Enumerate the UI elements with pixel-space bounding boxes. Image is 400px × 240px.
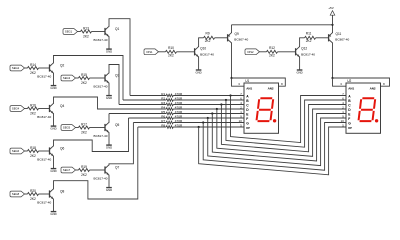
- svg-text:R14: R14: [30, 63, 36, 67]
- svg-text:SEG2: SEG2: [12, 66, 20, 70]
- svg-text:R7: R7: [161, 119, 165, 123]
- svg-text:2K2: 2K2: [81, 173, 87, 177]
- svg-text:SEG1: SEG1: [65, 30, 73, 34]
- svg-text:R18: R18: [30, 146, 36, 150]
- svg-text:Q8: Q8: [60, 189, 64, 193]
- svg-text:R17: R17: [81, 123, 87, 127]
- svg-text:Q1: Q1: [115, 27, 119, 31]
- svg-text:F: F: [246, 117, 248, 121]
- svg-text:Q7: Q7: [115, 165, 119, 169]
- svg-text:SEG5: SEG5: [63, 126, 71, 130]
- svg-text:+5V: +5V: [328, 6, 333, 10]
- svg-text:2K2: 2K2: [83, 34, 89, 38]
- svg-text:R15: R15: [81, 73, 87, 77]
- svg-text:SEG8: SEG8: [12, 192, 20, 196]
- svg-text:BC817-40: BC817-40: [37, 158, 51, 162]
- svg-text:GND: GND: [296, 70, 302, 74]
- svg-text:BC817-40: BC817-40: [37, 201, 51, 205]
- svg-text:2K2: 2K2: [168, 53, 174, 57]
- svg-text:Q4: Q4: [60, 104, 64, 108]
- svg-text:R11: R11: [306, 32, 312, 36]
- svg-text:2K2: 2K2: [30, 71, 36, 75]
- svg-text:GND: GND: [50, 212, 56, 216]
- svg-text:10: 10: [239, 119, 243, 123]
- svg-text:SEG3: SEG3: [63, 76, 71, 80]
- svg-text:R8: R8: [161, 124, 165, 128]
- svg-text:DP: DP: [348, 126, 352, 130]
- svg-text:GND: GND: [106, 146, 112, 150]
- svg-text:470R: 470R: [175, 110, 183, 114]
- svg-text:2K2: 2K2: [30, 111, 36, 115]
- svg-text:2K2: 2K2: [306, 39, 312, 43]
- svg-text:BC817-40: BC817-40: [94, 177, 108, 181]
- svg-text:470R: 470R: [175, 106, 183, 110]
- svg-text:R3: R3: [161, 101, 165, 105]
- svg-text:BC817-40: BC817-40: [301, 52, 315, 56]
- svg-text:R2: R2: [161, 97, 165, 101]
- svg-text:R12: R12: [269, 46, 275, 50]
- svg-text:2K2: 2K2: [30, 154, 36, 158]
- svg-text:R9: R9: [206, 32, 210, 36]
- svg-text:470R: 470R: [175, 92, 183, 96]
- svg-text:G: G: [348, 122, 351, 126]
- svg-text:470R: 470R: [175, 124, 183, 128]
- svg-text:R4: R4: [161, 106, 165, 110]
- svg-text:Q5: Q5: [115, 123, 119, 127]
- svg-text:SEG4: SEG4: [12, 107, 20, 111]
- svg-text:GND: GND: [106, 50, 112, 54]
- svg-text:470R: 470R: [175, 101, 183, 105]
- svg-text:Q10: Q10: [200, 47, 206, 51]
- svg-text:Q9: Q9: [235, 32, 239, 36]
- svg-text:U1: U1: [245, 79, 249, 83]
- svg-text:BC817-40: BC817-40: [37, 115, 51, 119]
- svg-text:AN2: AN2: [370, 86, 376, 90]
- svg-text:R19: R19: [81, 165, 87, 169]
- svg-text:GND: GND: [50, 169, 56, 173]
- svg-text:10: 10: [341, 119, 345, 123]
- svg-text:GND: GND: [50, 127, 56, 131]
- svg-text:R1: R1: [161, 92, 165, 96]
- svg-text:R5: R5: [161, 110, 165, 114]
- svg-text:R16: R16: [30, 104, 36, 108]
- svg-text:2K2: 2K2: [205, 39, 211, 43]
- svg-text:2K2: 2K2: [81, 130, 87, 134]
- svg-text:GND: GND: [195, 70, 201, 74]
- svg-text:R20: R20: [30, 189, 36, 193]
- svg-text:AN2: AN2: [268, 86, 274, 90]
- svg-text:BC817-40: BC817-40: [94, 134, 108, 138]
- svg-text:R10: R10: [168, 46, 174, 50]
- svg-text:F: F: [348, 117, 350, 121]
- svg-text:Q11: Q11: [336, 32, 342, 36]
- svg-text:2K2: 2K2: [269, 53, 275, 57]
- svg-text:DIS2: DIS2: [248, 50, 254, 54]
- svg-text:SEG7: SEG7: [63, 168, 71, 172]
- svg-text:U2: U2: [347, 79, 351, 83]
- svg-text:G: G: [246, 122, 249, 126]
- svg-text:2K2: 2K2: [81, 81, 87, 85]
- svg-text:Q6: Q6: [60, 146, 64, 150]
- svg-text:DIS1: DIS1: [147, 50, 153, 54]
- svg-text:BC817-40: BC817-40: [37, 75, 51, 79]
- svg-text:470R: 470R: [175, 97, 183, 101]
- svg-text:Q12: Q12: [301, 47, 307, 51]
- svg-text:AN1: AN1: [246, 86, 252, 90]
- svg-text:SEG6: SEG6: [12, 149, 20, 153]
- svg-text:2K2: 2K2: [30, 197, 36, 201]
- svg-text:AN1: AN1: [348, 86, 354, 90]
- svg-text:470R: 470R: [175, 119, 183, 123]
- svg-text:Q2: Q2: [60, 63, 64, 67]
- svg-text:BC817-40: BC817-40: [94, 38, 108, 42]
- svg-text:R6: R6: [161, 115, 165, 119]
- svg-text:GND: GND: [106, 96, 112, 100]
- svg-text:BC807-40: BC807-40: [335, 38, 349, 42]
- svg-text:R13: R13: [83, 27, 89, 31]
- svg-text:GND: GND: [50, 86, 56, 90]
- svg-text:BC817-40: BC817-40: [200, 52, 214, 56]
- svg-text:DP: DP: [246, 126, 250, 130]
- svg-text:BC817-40: BC817-40: [94, 85, 108, 89]
- svg-text:470R: 470R: [175, 115, 183, 119]
- svg-text:BC807-40: BC807-40: [234, 38, 248, 42]
- svg-text:GND: GND: [106, 188, 112, 192]
